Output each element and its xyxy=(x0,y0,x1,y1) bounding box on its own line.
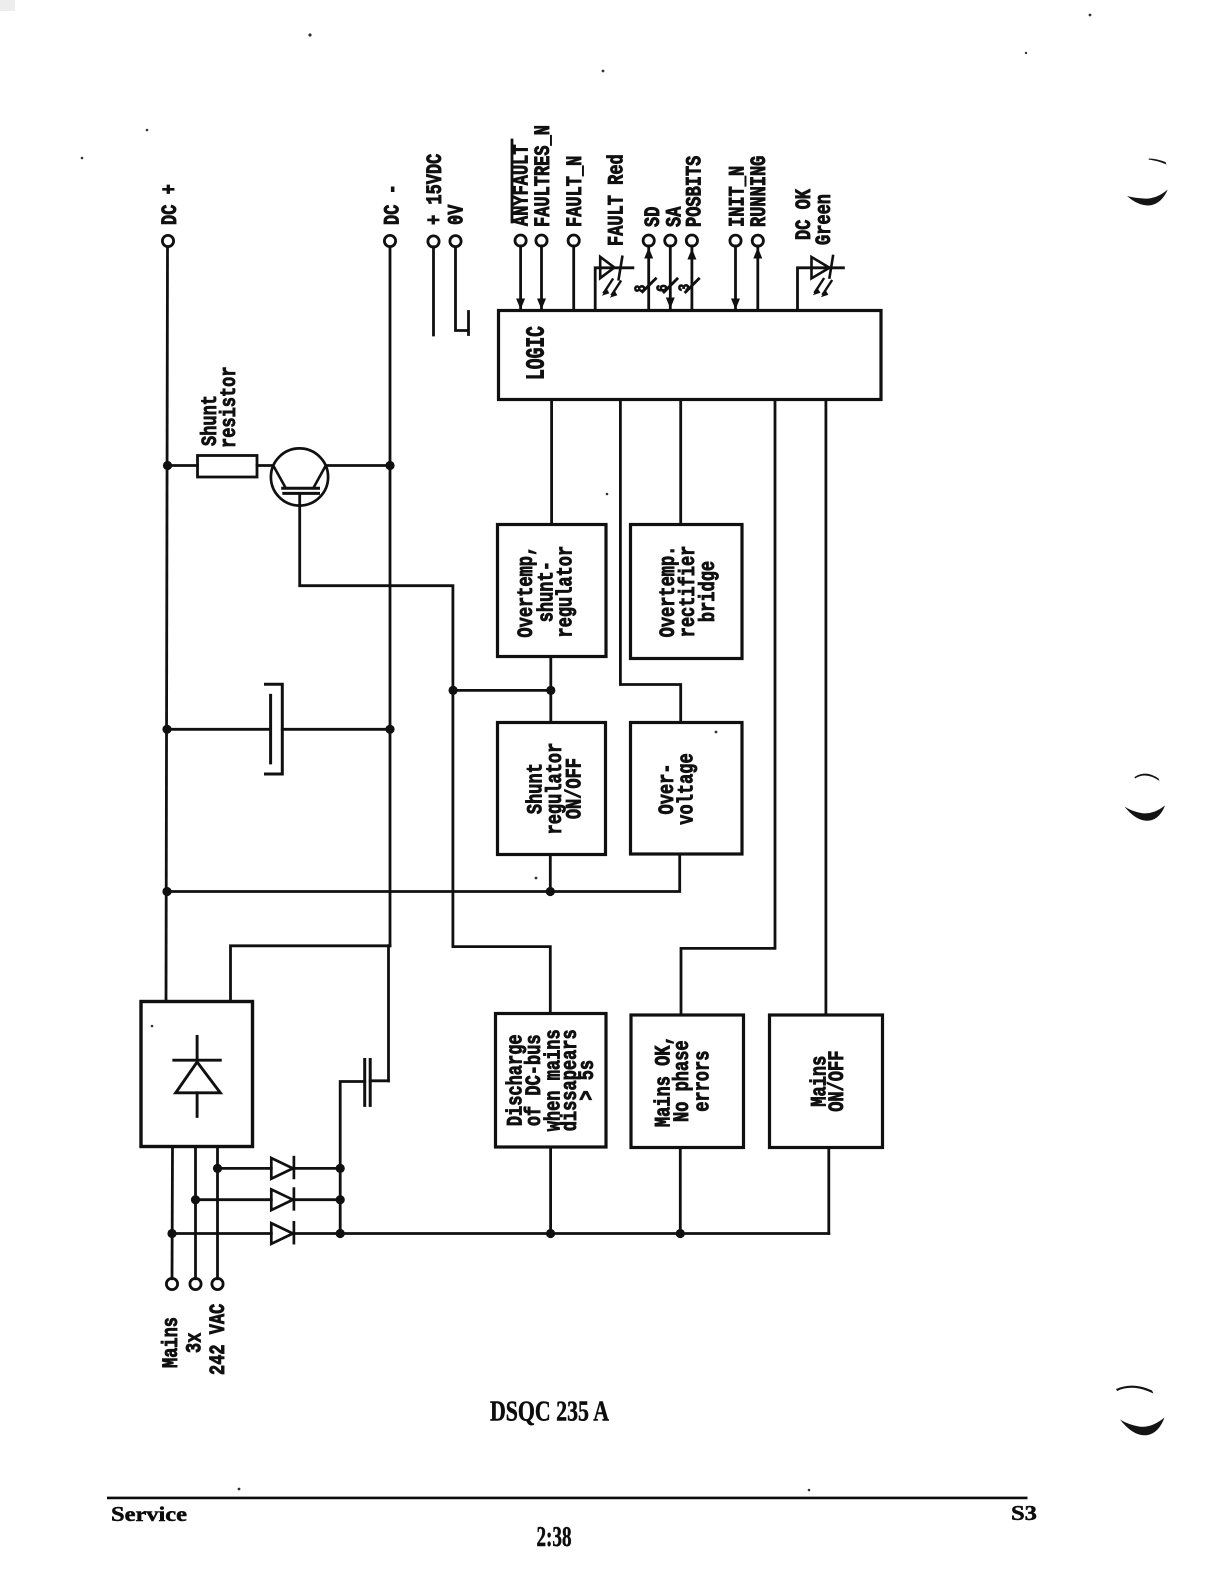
page curl bottom right xyxy=(1116,1386,1165,1436)
wire DC+ rail vertical xyxy=(166,247,168,1002)
LED DC OK diode xyxy=(812,256,834,278)
svg-text:POSBITS: POSBITS xyxy=(682,155,707,227)
terminal DC- xyxy=(384,235,395,246)
terminal mains 2 xyxy=(190,1278,201,1289)
capacitor C2 plates xyxy=(365,1060,371,1106)
transistor Q1 body xyxy=(274,466,326,493)
capacitor C1 plates xyxy=(266,684,283,774)
svg-text:Mains: Mains xyxy=(159,1317,184,1368)
arrow RUNNING up xyxy=(753,248,762,259)
LED FAULT Red wire xyxy=(595,268,633,310)
svg-text:errors: errors xyxy=(690,1051,715,1112)
wire RUNNING to LOGIC xyxy=(756,246,759,310)
wire LOGIC to Mains ON/OFF xyxy=(825,400,828,1016)
svg-text:DC -: DC - xyxy=(381,184,406,225)
wire SD to LOGIC xyxy=(647,246,650,310)
bus slash POSBITS xyxy=(686,279,699,292)
diode D2 wire out xyxy=(294,1198,340,1201)
wire LOGIC to Over-voltage (jog) xyxy=(620,400,680,723)
svg-text:Service: Service xyxy=(111,1502,187,1526)
bus slash SA xyxy=(664,279,677,292)
svg-text:2:38: 2:38 xyxy=(537,1522,572,1553)
diode D1 xyxy=(271,1157,294,1179)
wire INIT_N to LOGIC xyxy=(734,246,737,309)
svg-text:S3: S3 xyxy=(1011,1501,1037,1525)
capacitor C1 wire right xyxy=(282,728,390,731)
svg-text:ON/OFF: ON/OFF xyxy=(825,1051,850,1112)
terminal 0V xyxy=(450,236,461,247)
wire diode output bus vertical xyxy=(339,1168,342,1233)
block Overtemp. rectifier bridge xyxy=(631,525,743,659)
overline ANYFAULT xyxy=(511,140,514,222)
wire DC- rail vertical xyxy=(389,247,392,946)
wire 0V end tick xyxy=(467,312,470,335)
block Mains ON/OFF xyxy=(770,1015,883,1148)
diode D2 xyxy=(271,1189,294,1211)
page curl middle right xyxy=(1125,774,1166,821)
arrow FAULTRES_N down xyxy=(537,299,546,310)
diode D1 wire xyxy=(218,1167,272,1170)
transistor Q1 circle xyxy=(271,448,328,505)
scan specks xyxy=(81,14,1092,1492)
svg-text:RUNNING: RUNNING xyxy=(747,156,772,227)
LED FAULT Red diode xyxy=(600,257,622,280)
terminal FAULT_N xyxy=(568,235,579,246)
capacitor C2 left lead xyxy=(340,1082,365,1169)
svg-text:regulator: regulator xyxy=(554,546,579,638)
svg-text:FAULT_N: FAULT_N xyxy=(563,156,588,227)
wire DC- branch to capacitor C2 xyxy=(387,946,390,1081)
block Mains OK No phase errors xyxy=(631,1015,744,1148)
wire DC- jog to rectifier xyxy=(231,946,391,1002)
diode D3 wire xyxy=(172,1232,271,1235)
wire resistor to transistor xyxy=(257,464,273,467)
terminal ANYFAULT xyxy=(515,235,526,246)
svg-text:ON/OFF: ON/OFF xyxy=(563,758,588,819)
svg-text:DSQC 235 A: DSQC 235 A xyxy=(490,1396,609,1428)
LED DC OK light arrows xyxy=(815,279,832,294)
wire Mains OK bottom xyxy=(679,1148,682,1234)
terminal +15VDC xyxy=(428,236,439,247)
wire 0V stub L-shape xyxy=(456,247,469,331)
svg-text:FAULTRES_N: FAULTRES_N xyxy=(531,125,556,227)
arrow SA down xyxy=(666,298,675,309)
wire +15VDC stub xyxy=(432,247,435,335)
wire rectifier phase 2 xyxy=(194,1147,197,1279)
svg-text:3: 3 xyxy=(677,284,694,292)
block LOGIC xyxy=(499,311,882,400)
arrow INIT_N down xyxy=(731,299,740,310)
block Discharge of DC-bus xyxy=(496,1014,607,1148)
wire transistor base path xyxy=(300,493,551,1013)
wire rectifier phase 3 xyxy=(216,1147,219,1279)
svg-text:3x: 3x xyxy=(183,1332,208,1353)
terminal DC+ xyxy=(162,235,173,246)
svg-text:bridge: bridge xyxy=(696,561,721,622)
arrow POSBITS up xyxy=(687,249,696,260)
wire FAULTRES_N to LOGIC xyxy=(540,246,543,309)
LED DC OK wire xyxy=(798,268,844,310)
terminal mains 1 xyxy=(166,1278,177,1289)
wire rectifier phase 1 xyxy=(171,1147,174,1279)
block Shunt regulator ON/OFF xyxy=(498,723,606,855)
wire shunt resistor row left xyxy=(168,464,198,467)
block Overtemp, shunt-regulator xyxy=(498,525,607,657)
terminal RUNNING xyxy=(752,235,763,246)
scan corner smudge xyxy=(0,0,15,11)
page curl top right xyxy=(1127,159,1168,206)
wire LOGIC to Mains OK (jog) xyxy=(681,400,775,1016)
junction dots xyxy=(162,461,685,1238)
arrowheads on signal lines xyxy=(516,248,762,310)
wire Overtemp to Shunt regulator xyxy=(549,657,552,723)
terminal INIT_N xyxy=(730,235,741,246)
wire SA to LOGIC xyxy=(669,246,672,310)
wire LOGIC to Overtemp shunt-regulator xyxy=(550,400,553,525)
block text LOGIC xyxy=(521,326,551,380)
terminal FAULTRES_N xyxy=(536,235,547,246)
wire transistor line to shunt reg vertical xyxy=(453,689,551,692)
resistor shunt xyxy=(198,456,258,478)
wire POSBITS to LOGIC xyxy=(691,246,694,310)
footer rule xyxy=(107,1497,1028,1500)
terminal mains 3 xyxy=(212,1278,223,1289)
terminal POSBITS xyxy=(686,235,697,246)
svg-text:FAULT Red: FAULT Red xyxy=(604,154,629,246)
wire transistor to DC- xyxy=(327,464,390,467)
block Over-voltage xyxy=(631,723,743,855)
diode D2 wire xyxy=(196,1198,272,1201)
svg-text:> 5s: > 5s xyxy=(575,1060,600,1101)
LED FAULT Red light arrows xyxy=(604,280,621,295)
arrow SD up xyxy=(644,248,653,259)
diode D1 wire out xyxy=(294,1167,340,1170)
diode rectifier symbol inside block xyxy=(174,1036,221,1116)
svg-text:Green: Green xyxy=(812,194,837,245)
capacitor C1 wire left xyxy=(167,728,271,731)
wire Shunt ON/OFF bottom to DC+ rail xyxy=(549,855,552,892)
wire Discharge block bottom xyxy=(549,1147,552,1234)
wire FAULT_N to LOGIC xyxy=(572,246,575,310)
svg-text:DC +: DC + xyxy=(158,184,183,225)
block rectifier bridge xyxy=(141,1002,253,1147)
arrow ANYFAULT down xyxy=(516,299,525,310)
svg-text:resistor: resistor xyxy=(217,366,242,448)
wire bottom bus to Mains ON/OFF xyxy=(827,1148,830,1234)
wire ANYFAULT to LOGIC xyxy=(519,246,522,309)
wire LOGIC to Overtemp rectifier bridge xyxy=(679,400,682,525)
wire bottom bus xyxy=(294,1232,829,1235)
terminal SA xyxy=(665,235,676,246)
svg-text:LOGIC: LOGIC xyxy=(521,326,551,380)
bus slash SD xyxy=(643,279,656,292)
terminal SD xyxy=(643,235,654,246)
svg-text:6: 6 xyxy=(655,284,672,292)
svg-text:242 VAC: 242 VAC xyxy=(206,1303,231,1375)
svg-text:0V: 0V xyxy=(445,204,470,225)
wire DC+ rail to Over-voltage xyxy=(167,855,680,892)
svg-text:voltage: voltage xyxy=(675,753,700,824)
capacitor C2 right lead xyxy=(370,1079,388,1082)
svg-text:8: 8 xyxy=(633,285,650,293)
bus width digits xyxy=(633,284,694,293)
diode D3 xyxy=(271,1222,294,1244)
